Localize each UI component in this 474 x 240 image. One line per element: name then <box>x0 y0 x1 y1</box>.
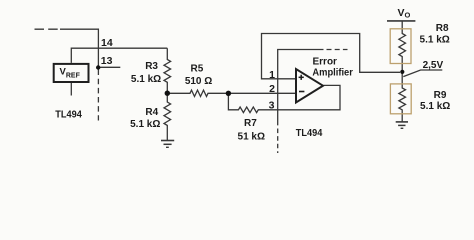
svg-text:TL494: TL494 <box>296 128 323 139</box>
svg-text:R5: R5 <box>191 63 204 74</box>
svg-text:TL494: TL494 <box>55 109 82 120</box>
svg-text:R7: R7 <box>244 118 257 129</box>
svg-text:R4: R4 <box>145 107 158 118</box>
svg-text:3: 3 <box>269 99 275 111</box>
svg-text:510 Ω: 510 Ω <box>185 76 212 87</box>
svg-text:1: 1 <box>269 69 275 81</box>
svg-text:5.1 kΩ: 5.1 kΩ <box>130 119 160 130</box>
svg-text:2: 2 <box>269 83 275 95</box>
svg-text:5.1 kΩ: 5.1 kΩ <box>420 35 450 46</box>
svg-text:13: 13 <box>101 55 113 67</box>
svg-text:Error: Error <box>313 57 338 68</box>
svg-text:R8: R8 <box>436 23 449 34</box>
svg-text:R3: R3 <box>145 61 158 72</box>
svg-text:51 kΩ: 51 kΩ <box>238 131 265 142</box>
svg-text:R9: R9 <box>434 90 447 101</box>
svg-text:5.1 kΩ: 5.1 kΩ <box>420 101 450 112</box>
svg-text:2,5V: 2,5V <box>423 60 444 71</box>
svg-text:14: 14 <box>101 37 113 49</box>
svg-text:5.1 kΩ: 5.1 kΩ <box>131 74 161 85</box>
svg-text:Amplifier: Amplifier <box>312 67 353 78</box>
